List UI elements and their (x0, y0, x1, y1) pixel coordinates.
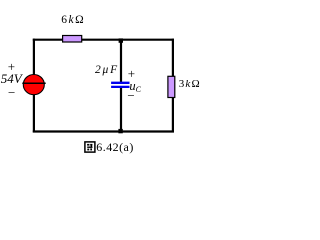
label + polarity of uc (128, 67, 135, 80)
wire bottom (return node) (33, 130, 174, 132)
voltage source Us 54V (23, 75, 44, 95)
label 54V source value (1, 72, 22, 85)
capacitor C plate top (111, 82, 129, 84)
caption text 6.42(a) (96, 141, 133, 153)
wire middle lower (120, 87, 122, 132)
wire middle branch (capacitor leg) (120, 40, 122, 83)
label + polarity of source (8, 60, 15, 73)
caption figure number: glyph for Chinese 'tu' drawn as SVG (84, 141, 96, 153)
label 2uF for capacitor (95, 65, 119, 77)
resistor R1 6k (63, 36, 82, 43)
capacitor C plate bottom (111, 86, 129, 88)
resistor R2 3k (168, 76, 175, 97)
label - polarity of uc (127, 89, 134, 102)
wire top (node between source, R1, C, R2) (33, 39, 174, 41)
label - polarity of source (8, 86, 15, 99)
label 3kOhm for R2 (179, 79, 201, 90)
label 6kOhm for R1 (61, 15, 85, 27)
wire left branch (33, 39, 35, 133)
label uc voltage (129, 80, 141, 94)
node junction bottom (118, 129, 122, 133)
node junction top (119, 38, 123, 42)
wire right branch (172, 39, 174, 133)
